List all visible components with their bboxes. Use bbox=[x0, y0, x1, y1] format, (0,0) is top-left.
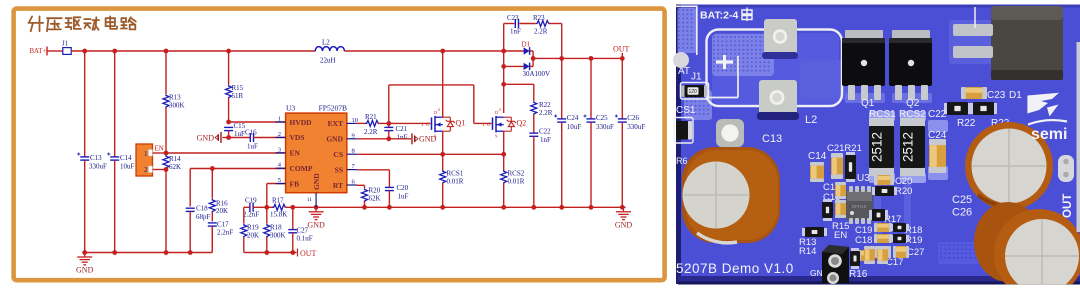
svg-text:OUT: OUT bbox=[613, 45, 630, 54]
svg-text:R17: R17 bbox=[272, 197, 284, 205]
svg-text:GND: GND bbox=[197, 133, 215, 142]
svg-text:U3: U3 bbox=[286, 104, 295, 113]
svg-text:68pF: 68pF bbox=[196, 213, 211, 221]
svg-text:0.1uF: 0.1uF bbox=[297, 235, 313, 243]
svg-text:J1: J1 bbox=[691, 72, 702, 83]
svg-text:C22: C22 bbox=[928, 109, 947, 120]
svg-text:EN: EN bbox=[155, 145, 164, 153]
svg-text:GND: GND bbox=[312, 173, 321, 190]
svg-text:5: 5 bbox=[278, 177, 281, 184]
svg-text:RT: RT bbox=[333, 181, 343, 190]
svg-text:R15: R15 bbox=[232, 84, 244, 92]
svg-text:51R: 51R bbox=[232, 92, 244, 100]
svg-text:330uF: 330uF bbox=[627, 123, 645, 131]
svg-text:C19: C19 bbox=[245, 197, 257, 205]
svg-text:SS: SS bbox=[335, 165, 343, 174]
svg-text:2.2nF: 2.2nF bbox=[217, 229, 233, 237]
svg-text:C25: C25 bbox=[952, 194, 972, 206]
svg-text:C17: C17 bbox=[217, 221, 229, 229]
svg-text:2512: 2512 bbox=[870, 132, 885, 162]
svg-text:EXT: EXT bbox=[328, 119, 343, 128]
svg-text:C27: C27 bbox=[907, 247, 924, 258]
svg-text:R6: R6 bbox=[676, 156, 688, 166]
svg-text:EN: EN bbox=[290, 149, 301, 158]
svg-text:1nF: 1nF bbox=[540, 136, 551, 144]
svg-text:62K: 62K bbox=[169, 163, 181, 171]
svg-text:EN: EN bbox=[834, 230, 847, 241]
svg-text:C26: C26 bbox=[952, 207, 972, 219]
svg-text:2.2R: 2.2R bbox=[539, 109, 553, 117]
svg-text:G: G bbox=[426, 123, 430, 128]
svg-text:15.8K: 15.8K bbox=[270, 211, 287, 219]
svg-text:C14: C14 bbox=[808, 151, 827, 162]
svg-text:S: S bbox=[434, 134, 437, 139]
svg-text:C23: C23 bbox=[987, 90, 1006, 101]
svg-text:C23: C23 bbox=[507, 14, 519, 22]
svg-text:1nF: 1nF bbox=[510, 28, 521, 36]
svg-text:DPH10: DPH10 bbox=[852, 204, 867, 209]
svg-text:C16: C16 bbox=[245, 129, 257, 137]
svg-text:300K: 300K bbox=[169, 102, 185, 110]
svg-text:22uH: 22uH bbox=[320, 57, 336, 65]
svg-text:1uF: 1uF bbox=[247, 143, 258, 151]
svg-text:VDS: VDS bbox=[290, 133, 305, 142]
svg-text:G: G bbox=[487, 123, 491, 128]
svg-text:2512: 2512 bbox=[901, 132, 916, 162]
svg-text:30A100V: 30A100V bbox=[523, 70, 551, 78]
svg-text:C26: C26 bbox=[627, 114, 639, 122]
svg-text:2.2nF: 2.2nF bbox=[243, 211, 259, 219]
svg-text:1uF: 1uF bbox=[398, 193, 409, 201]
svg-text:10uF: 10uF bbox=[120, 163, 135, 171]
svg-text:R16: R16 bbox=[849, 269, 868, 280]
svg-text:C21R21: C21R21 bbox=[827, 143, 862, 154]
svg-text:C15: C15 bbox=[234, 122, 246, 130]
svg-text:D1: D1 bbox=[1009, 90, 1022, 101]
svg-text:0.01R: 0.01R bbox=[508, 178, 525, 186]
svg-text:R14: R14 bbox=[169, 155, 181, 163]
svg-text:330uF: 330uF bbox=[596, 123, 614, 131]
svg-text:C22: C22 bbox=[539, 128, 551, 136]
svg-text:C20: C20 bbox=[397, 184, 409, 192]
svg-text:0.01R: 0.01R bbox=[447, 178, 464, 186]
svg-text:semi: semi bbox=[1031, 126, 1067, 143]
svg-text:R22: R22 bbox=[957, 118, 976, 129]
svg-text:3: 3 bbox=[278, 146, 281, 153]
svg-text:Q2: Q2 bbox=[517, 119, 527, 128]
svg-text:2.2R: 2.2R bbox=[534, 28, 548, 36]
svg-text:2.2R: 2.2R bbox=[364, 128, 378, 136]
svg-text:COMP: COMP bbox=[290, 164, 313, 173]
svg-text:120: 120 bbox=[689, 89, 698, 95]
svg-text:20K: 20K bbox=[216, 207, 228, 215]
svg-text:R13: R13 bbox=[169, 94, 181, 102]
svg-text:1: 1 bbox=[278, 116, 281, 123]
svg-text:FB: FB bbox=[290, 179, 300, 188]
svg-text:R18: R18 bbox=[270, 224, 282, 232]
svg-text:62K: 62K bbox=[369, 195, 381, 203]
svg-text:GND: GND bbox=[76, 266, 94, 275]
svg-text:U3: U3 bbox=[857, 173, 870, 184]
svg-text:C25: C25 bbox=[596, 114, 608, 122]
svg-text:330uF: 330uF bbox=[89, 163, 107, 171]
svg-text:5207B Demo V1.0: 5207B Demo V1.0 bbox=[676, 261, 794, 276]
svg-text:Q1: Q1 bbox=[861, 98, 875, 109]
svg-text:GND: GND bbox=[326, 135, 343, 144]
svg-text:20K: 20K bbox=[247, 232, 259, 240]
svg-text:8: 8 bbox=[352, 148, 355, 155]
svg-text:C21: C21 bbox=[396, 125, 408, 133]
svg-text:BAT+: BAT+ bbox=[30, 48, 47, 55]
svg-text:1: 1 bbox=[144, 150, 148, 158]
svg-text:11: 11 bbox=[307, 197, 313, 203]
svg-text:GND: GND bbox=[307, 220, 325, 229]
svg-text:C27: C27 bbox=[297, 227, 309, 235]
svg-text:R14: R14 bbox=[799, 246, 816, 257]
svg-text:1nF: 1nF bbox=[397, 134, 408, 142]
svg-text:BAT:2-4: BAT:2-4 bbox=[700, 10, 738, 22]
svg-text:4: 4 bbox=[499, 107, 502, 112]
svg-text:10uF: 10uF bbox=[567, 123, 582, 131]
svg-text:C18: C18 bbox=[855, 235, 872, 246]
svg-text:4: 4 bbox=[438, 107, 441, 112]
svg-text:L2: L2 bbox=[805, 114, 817, 126]
svg-text:R21: R21 bbox=[365, 113, 377, 121]
svg-text:FP5207B: FP5207B bbox=[319, 104, 347, 113]
svg-text:C13: C13 bbox=[90, 154, 102, 162]
svg-text:CS1: CS1 bbox=[676, 105, 696, 116]
svg-text:HVDD: HVDD bbox=[290, 118, 313, 127]
svg-text:Q1: Q1 bbox=[456, 119, 466, 128]
svg-text:S: S bbox=[495, 134, 498, 139]
svg-text:R23: R23 bbox=[533, 14, 545, 22]
svg-text:C18: C18 bbox=[196, 205, 208, 213]
svg-text:C17: C17 bbox=[886, 257, 903, 268]
svg-text:300K: 300K bbox=[270, 232, 286, 240]
svg-text:R20: R20 bbox=[369, 187, 381, 195]
svg-text:L2: L2 bbox=[322, 39, 330, 47]
svg-text:RCS1: RCS1 bbox=[447, 170, 464, 178]
svg-text:2: 2 bbox=[278, 131, 281, 138]
svg-text:R20: R20 bbox=[895, 186, 912, 197]
svg-text:CS: CS bbox=[333, 150, 343, 159]
svg-text:J1: J1 bbox=[62, 40, 69, 48]
svg-text:R19: R19 bbox=[247, 224, 259, 232]
svg-text:C14: C14 bbox=[120, 154, 132, 162]
svg-text:OUT: OUT bbox=[1062, 194, 1074, 218]
svg-text:9: 9 bbox=[352, 132, 355, 139]
svg-text:OUT: OUT bbox=[300, 249, 317, 258]
svg-text:RCS2: RCS2 bbox=[508, 170, 525, 178]
svg-text:Q2: Q2 bbox=[906, 98, 920, 109]
svg-text:GND: GND bbox=[615, 220, 633, 229]
svg-text:2: 2 bbox=[144, 166, 148, 174]
svg-text:C13: C13 bbox=[762, 133, 782, 145]
svg-text:C24: C24 bbox=[567, 114, 579, 122]
svg-text:R22: R22 bbox=[539, 101, 551, 109]
